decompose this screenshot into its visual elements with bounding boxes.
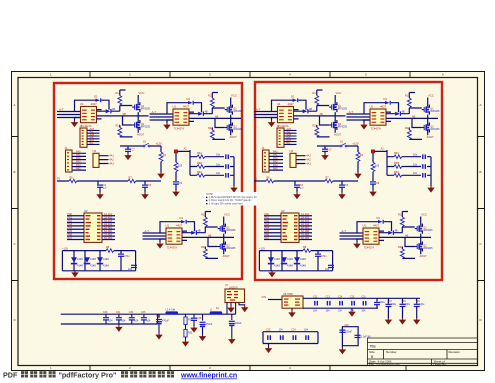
svg-text:Size: Size [369, 350, 375, 354]
svg-text:B: B [14, 170, 16, 174]
capacitor C16 [363, 301, 367, 306]
border zone numbers top [50, 73, 444, 77]
capacitor C33 [143, 314, 145, 317]
svg-text:R21: R21 [188, 332, 193, 335]
wire decoupling loop [342, 327, 358, 346]
capacitor C31 [118, 314, 120, 317]
svg-text:C15: C15 [350, 297, 355, 299]
svg-text:470uF: 470uF [206, 323, 213, 326]
capacitor C13 [327, 301, 331, 306]
svg-text:100u: 100u [391, 304, 397, 306]
wire U7 pins down [227, 303, 245, 315]
svg-text:C35: C35 [197, 317, 202, 320]
ground [399, 318, 406, 325]
capacitor C30 [105, 314, 107, 317]
svg-text:Revision: Revision [449, 350, 461, 354]
capacitor C37 electrolytic [158, 314, 160, 318]
wire filter row rails [263, 332, 318, 344]
svg-text:C22: C22 [266, 330, 271, 332]
capacitor C20 electrolytic [339, 330, 345, 333]
svg-text:470uF: 470uF [162, 319, 169, 322]
capacitor C25 [305, 335, 309, 340]
wire main rail bottom [61, 314, 158, 324]
svg-text:Drawn By:: Drawn By: [434, 363, 447, 367]
capacitor C15 [351, 301, 355, 306]
capacitor C19 electrolytic [402, 298, 404, 303]
svg-text:C14: C14 [338, 297, 343, 299]
op-amp U8 regulator [282, 296, 303, 308]
wire main rail top [61, 313, 236, 315]
ground [268, 344, 270, 347]
svg-text:"pdfFactory Pro": "pdfFactory Pro" [59, 371, 117, 380]
ground [385, 318, 392, 325]
inductor L1 [210, 311, 223, 314]
svg-text:100u: 100u [419, 304, 425, 306]
svg-text:Title: Title [370, 345, 376, 349]
svg-text:C19: C19 [402, 301, 407, 303]
bottom left power section [61, 283, 249, 347]
ground [182, 340, 189, 347]
capacitor C12 [314, 301, 318, 306]
svg-text:104: 104 [146, 320, 151, 323]
svg-text:U8 7805: U8 7805 [283, 292, 293, 296]
capacitor C35 [193, 314, 195, 317]
svg-text:C31: C31 [116, 311, 121, 314]
svg-text:NOTE:: NOTE: [206, 193, 214, 196]
wire output rails [303, 298, 420, 308]
svg-text:D:\Design\motor.ddb: D:\Design\motor.ddb [376, 363, 400, 367]
svg-text:C37: C37 [156, 315, 161, 318]
svg-text:C24: C24 [291, 330, 296, 332]
svg-text:A: A [14, 103, 16, 107]
svg-text:Number: Number [386, 350, 397, 354]
ground [227, 306, 234, 313]
svg-text:4A: 4A [216, 307, 219, 310]
capacitor C23 [280, 335, 284, 340]
left channel circuit [57, 90, 243, 277]
svg-text:C16: C16 [362, 297, 367, 299]
svg-text:100u: 100u [380, 302, 386, 304]
capacitor C17 electrolytic [376, 298, 378, 302]
svg-text:VIN: VIN [262, 295, 266, 299]
ground [190, 326, 197, 333]
svg-text:100u: 100u [405, 304, 411, 306]
ground [241, 306, 248, 313]
svg-text:C18: C18 [387, 301, 392, 303]
resistor R21 [185, 325, 187, 330]
capacitor C26 [355, 335, 361, 338]
capacitor C38 electrolytic [231, 314, 233, 320]
svg-text:L2 4.7uH: L2 4.7uH [166, 308, 176, 311]
ground [155, 333, 162, 340]
capacitor C36 electrolytic [202, 314, 204, 320]
ground [118, 324, 120, 325]
svg-text:C30: C30 [103, 311, 108, 314]
svg-text:A: A [480, 103, 482, 107]
resistor R20 [185, 314, 187, 317]
svg-text:File:: File: [369, 363, 375, 367]
title block [368, 338, 478, 367]
border zone letters left [14, 103, 17, 322]
schematic sheet background [12, 72, 485, 371]
left channel boundary red box [54, 83, 242, 279]
svg-text:2. Driver supply 12V DC, TC442: 2. Driver supply 12V DC, TC4427 gate drv [209, 199, 253, 202]
svg-text:LM2576: LM2576 [229, 286, 238, 289]
right channel boundary red box [255, 82, 442, 280]
svg-text:104: 104 [109, 320, 114, 323]
watermark text [3, 371, 237, 380]
svg-text:C33: C33 [141, 311, 146, 314]
svg-text:3. All caps 50V unless noted h: 3. All caps 50V unless noted here [209, 202, 244, 205]
svg-text:104: 104 [134, 320, 139, 323]
border zone ticks bottom [90, 366, 406, 371]
svg-text:PDF: PDF [3, 371, 18, 380]
wire vin [268, 299, 282, 301]
border zone ticks left [12, 137, 19, 281]
svg-text:C32: C32 [129, 311, 134, 314]
right channel circuit [254, 90, 440, 277]
ground [199, 335, 206, 342]
capacitor C21 electrolytic [416, 298, 418, 303]
svg-text:B: B [480, 170, 482, 174]
capacitor C22 [267, 335, 271, 340]
capacitor C24 [293, 335, 297, 340]
capacitor C14 [339, 301, 343, 306]
svg-text:C12: C12 [313, 297, 318, 299]
inductor L2 [166, 311, 179, 314]
ground [341, 346, 343, 348]
ground [291, 308, 293, 311]
ground [351, 308, 353, 310]
border zone ticks top [90, 72, 410, 78]
border zone letters right [480, 103, 483, 322]
svg-text:C20: C20 [344, 325, 349, 327]
border zone ticks right [478, 137, 485, 281]
capacitor C32 [131, 314, 133, 317]
capacitor C18 electrolytic [387, 298, 389, 303]
svg-text:100uF: 100uF [235, 322, 242, 325]
ground [413, 318, 420, 325]
bottom right power section [262, 292, 426, 355]
sheet inner border [18, 78, 478, 366]
svg-text:www.fineprint.cn: www.fineprint.cn [180, 373, 237, 380]
svg-text:C13: C13 [326, 297, 331, 299]
op-amp U7 regulator [225, 289, 245, 303]
svg-text:104: 104 [121, 320, 126, 323]
svg-text:220uF: 220uF [345, 331, 352, 333]
ground [228, 338, 235, 345]
note text box [202, 192, 257, 206]
border zone numbers bottom [50, 366, 291, 370]
svg-text:1. BUS rated MOSFET 30V DC max: 1. BUS rated MOSFET 30V DC max output, 4… [209, 196, 258, 199]
svg-text:C21: C21 [416, 301, 421, 303]
